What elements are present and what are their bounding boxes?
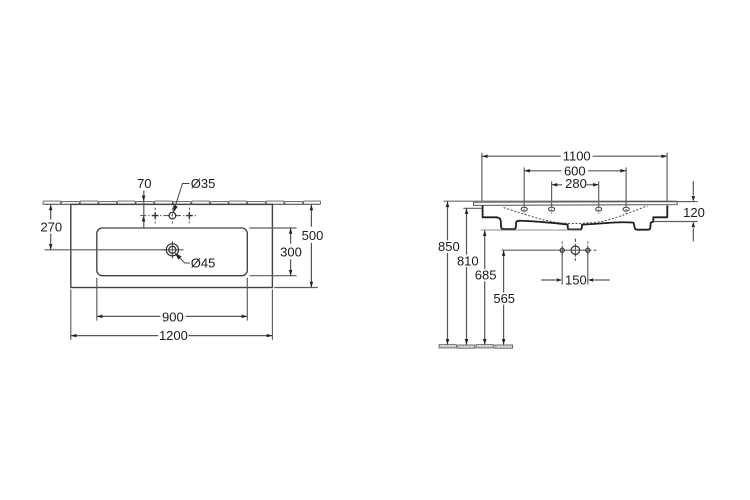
- svg-text:Ø35: Ø35: [191, 176, 216, 191]
- svg-text:270: 270: [40, 220, 62, 235]
- svg-text:1200: 1200: [159, 328, 188, 343]
- svg-text:300: 300: [280, 244, 302, 259]
- svg-text:Ø45: Ø45: [191, 256, 216, 271]
- svg-text:900: 900: [162, 310, 184, 325]
- svg-text:120: 120: [683, 205, 705, 220]
- svg-text:280: 280: [565, 176, 587, 191]
- svg-text:150: 150: [565, 273, 587, 288]
- svg-text:685: 685: [475, 268, 497, 283]
- svg-text:565: 565: [493, 291, 515, 306]
- svg-text:810: 810: [457, 254, 479, 269]
- svg-text:500: 500: [302, 228, 324, 243]
- svg-text:1100: 1100: [563, 149, 591, 164]
- svg-text:70: 70: [137, 176, 151, 191]
- svg-text:850: 850: [438, 239, 460, 254]
